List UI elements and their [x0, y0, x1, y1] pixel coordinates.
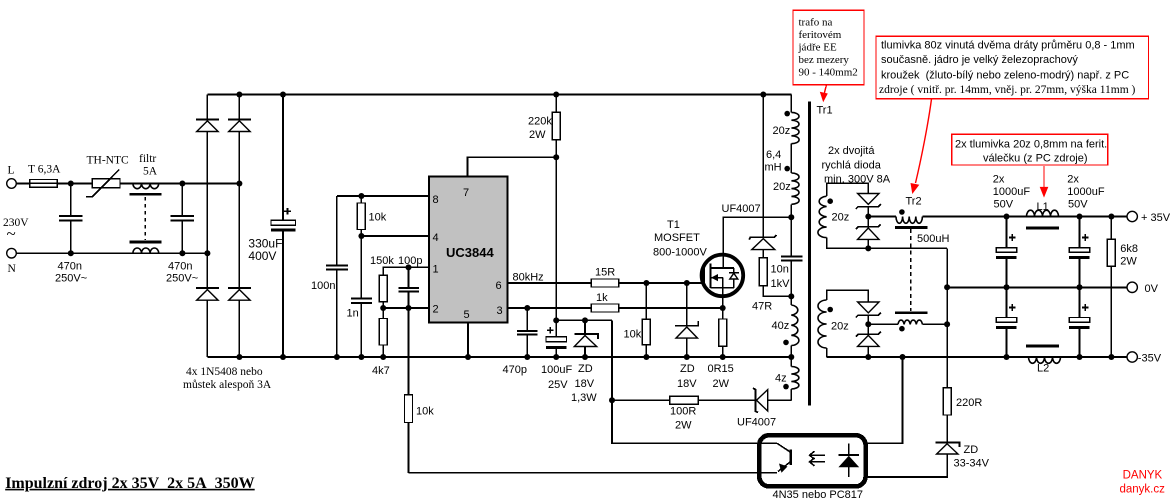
svg-text:18V: 18V	[677, 378, 697, 390]
wire gate net pin6 to MOSFET	[508, 282, 705, 284]
wire bottom rail primary ground	[207, 356, 791, 358]
junction pin2 line / 150k / 4k7	[380, 305, 386, 311]
capacitor 470n 250V~ #2	[166, 184, 198, 285]
junction -35V rail / C3	[1004, 354, 1010, 360]
svg-text:T1: T1	[667, 219, 680, 231]
svg-text:0V: 0V	[1145, 283, 1159, 295]
svg-text:+ 35V: + 35V	[1141, 212, 1170, 224]
terminal -35V	[1127, 352, 1162, 365]
junction bottom rail / 100uF	[553, 354, 559, 360]
wire optocoupler emitter line	[409, 472, 778, 474]
resistor R 10k (pin8-pin4)	[357, 196, 386, 236]
svg-text:mH: mH	[765, 162, 782, 174]
transformer Tr1 primary winding 20z lower	[765, 144, 800, 218]
wire pin 2 net	[383, 307, 429, 309]
terminal L	[7, 165, 17, 189]
svg-text:současně. jádro je velký žele: současně. jádro je velký železoprachový	[881, 54, 1078, 66]
svg-text:ZD: ZD	[680, 363, 695, 375]
wire Vcc node to ZD18V and 612 branch	[556, 319, 612, 321]
svg-text:zdroje ( vnitř. pr. 14mm, vněj: zdroje ( vnitř. pr. 14mm, vněj. pr. 27mm…	[879, 84, 1136, 96]
svg-text:100n: 100n	[311, 280, 335, 292]
label bridge 4x 1N5408	[183, 366, 272, 391]
svg-text:4z: 4z	[775, 373, 787, 385]
svg-text:15R: 15R	[595, 267, 615, 279]
junction bottom rail / 330uF	[280, 354, 286, 360]
junction aux line / 100R branch	[609, 397, 615, 403]
svg-text:Impulzní zdroj 2x 35V 2x 5A: Impulzní zdroj 2x 35V 2x 5A 350W	[5, 475, 255, 492]
svg-text:4x 1N5408 nebo: 4x 1N5408 nebo	[186, 366, 263, 378]
svg-text:Tr1: Tr1	[817, 105, 833, 117]
svg-text:1000uF: 1000uF	[1067, 186, 1105, 198]
junction L/470n#2	[179, 181, 185, 187]
svg-text:150k: 150k	[370, 255, 394, 267]
svg-text:2W: 2W	[713, 378, 730, 390]
svg-text:470n: 470n	[58, 261, 82, 273]
svg-text:1000uF: 1000uF	[993, 186, 1031, 198]
capacitor 330uF 400V bulk	[248, 95, 295, 358]
junction pin8 line / 10k	[358, 193, 364, 199]
svg-text:100R: 100R	[670, 406, 696, 418]
svg-text:0R15: 0R15	[708, 363, 734, 375]
junction L line / bridge right leg	[236, 181, 242, 187]
resistor R 150k	[370, 255, 394, 308]
svg-text:TH-NTC: TH-NTC	[87, 155, 129, 167]
svg-text:5: 5	[464, 309, 470, 321]
junction bottom rail / 0R15	[720, 354, 726, 360]
svg-text:4: 4	[433, 232, 439, 244]
diode UF4007 snubber	[749, 235, 776, 258]
svg-text:800-1000V: 800-1000V	[653, 247, 707, 259]
svg-text:8: 8	[433, 194, 439, 206]
svg-text:6: 6	[496, 280, 502, 292]
capacitor 470p	[503, 308, 538, 376]
wire snubber branch from top rail	[762, 95, 764, 237]
svg-text:DANYK: DANYK	[1123, 470, 1163, 482]
junction pin2 line / 100p / feedback branch	[406, 305, 412, 311]
wire pin 7 net to Vcc	[468, 157, 557, 176]
junction bottom rail / bridge right leg	[236, 354, 242, 360]
svg-text:filtr: filtr	[139, 153, 156, 165]
capacitor 100uF 25V	[541, 327, 572, 391]
svg-text:250V~: 250V~	[55, 273, 87, 285]
junction source / CS net / 0R15	[720, 305, 726, 311]
svg-text:kroužek (žluto-bílý nebo zele: kroužek (žluto-bílý nebo zeleno-modrý) n…	[881, 70, 1129, 82]
wire optocoupler LED anode to zener branch	[866, 454, 948, 477]
wire 0V center tap vertical	[946, 248, 948, 387]
svg-text:400V: 400V	[248, 249, 276, 263]
svg-text:L1: L1	[1037, 201, 1049, 213]
svg-text:80kHz: 80kHz	[513, 272, 544, 284]
svg-text:6k8: 6k8	[1120, 243, 1138, 255]
junction primary winding / drain / 10n	[788, 214, 794, 220]
junction +35V rail / C1	[1004, 214, 1010, 220]
svg-text:20z: 20z	[831, 321, 849, 333]
svg-text:10k: 10k	[416, 406, 434, 418]
junction pin7 / 220k / Vcc vertical	[553, 154, 559, 160]
wire bridge right leg	[238, 95, 240, 358]
svg-text:20z: 20z	[832, 212, 850, 224]
svg-text:20z: 20z	[773, 181, 791, 193]
junction 10n / 47R / 40z top	[788, 293, 794, 299]
junction bottom rail / 1n	[358, 354, 364, 360]
junction -35V rail / C4	[1077, 354, 1083, 360]
junction -35V rail / D8	[865, 354, 871, 360]
junction bottom rail / 4k7	[380, 354, 386, 360]
svg-text:rychlá dioda: rychlá dioda	[822, 160, 882, 172]
svg-text:1,3W: 1,3W	[571, 392, 597, 404]
transformer Tr1 secondary winding 20z lower	[818, 290, 868, 357]
optocoupler light arrows	[810, 451, 825, 466]
wire bridge left leg	[206, 95, 208, 358]
junction bottom rail / 10k pulldown	[643, 354, 649, 360]
junction -35V rail / 6k8	[1108, 354, 1114, 360]
resistor R 4k7	[372, 308, 390, 377]
svg-text:jádře EE: jádře EE	[798, 42, 837, 54]
junction 40z / 4z / bottom rail end	[788, 354, 794, 360]
junction top rail / 330uF	[280, 92, 286, 98]
wire 0V rail	[947, 286, 1127, 288]
optocoupler phototransistor	[777, 443, 791, 473]
junction Vcc node / 100uF	[553, 317, 559, 323]
terminal 0V	[1127, 282, 1159, 295]
annotation red box 2x tlumivka	[952, 134, 1108, 165]
wire drain from primary winding	[723, 217, 791, 268]
transformer Tr1 secondary winding 20z upper	[818, 183, 947, 248]
junction +35V rail / C2	[1077, 214, 1083, 220]
optocoupler LED	[838, 443, 859, 477]
junction pin1 line / 100p	[406, 264, 412, 270]
diode fast D8 (lower pair, freewheel)	[856, 315, 881, 357]
diode bridge D1 top-left 1N5408	[196, 119, 219, 131]
svg-text:2W: 2W	[529, 129, 546, 141]
terminal N	[7, 248, 17, 275]
diode fast D7 (lower pair, top)	[856, 302, 881, 318]
junction -35V rail / opto cathode wire	[900, 354, 906, 360]
svg-text:10k: 10k	[624, 329, 642, 341]
label 2x dvojita rychla dioda	[822, 145, 891, 186]
svg-text:40z: 40z	[772, 320, 790, 332]
svg-text:UC3844: UC3844	[446, 245, 494, 260]
diode bridge D4 bottom-right 1N5408	[228, 288, 251, 300]
capacitor 1000uF 50V #1	[993, 174, 1031, 288]
svg-text:ZD: ZD	[578, 363, 593, 375]
junction gate net / gate zener	[684, 280, 690, 286]
op-amp/PWM controller U1 UC3844	[429, 177, 508, 323]
svg-text:470p: 470p	[503, 364, 527, 376]
junction lower diode pair output	[865, 321, 871, 327]
svg-text:20z: 20z	[773, 125, 791, 137]
transformer Tr1 primary winding 20z upper	[773, 95, 800, 144]
svg-text:1n: 1n	[347, 308, 359, 320]
junction 20z upper return / D6	[865, 245, 871, 251]
resistor R 10k gate pulldown	[624, 283, 651, 357]
annotation red arrow to Tr2	[911, 99, 932, 194]
title Impulzni zdroj	[5, 475, 255, 492]
junction bottom rail / ZD18V	[582, 354, 588, 360]
svg-text:~: ~	[7, 224, 16, 243]
capacitor 1000uF 50V #3	[996, 287, 1017, 357]
resistor R 220k 2W	[528, 95, 560, 158]
svg-text:7: 7	[463, 187, 469, 199]
svg-text:-35V: -35V	[1138, 353, 1162, 365]
resistor R 47R	[752, 258, 791, 313]
optocoupler U2 4N35	[759, 435, 865, 500]
junction N/470n#2	[179, 250, 185, 256]
junction gate net / 10k pulldown	[643, 280, 649, 286]
junction N/470n#1	[68, 250, 74, 256]
svg-text:MOSFET: MOSFET	[654, 232, 700, 244]
svg-text:můstek alespoň 3A: můstek alespoň 3A	[183, 378, 272, 391]
svg-text:2x: 2x	[1067, 174, 1079, 186]
svg-text:2x: 2x	[993, 174, 1005, 186]
wire Vcc vertical down to 100uF	[555, 157, 557, 337]
inductor L1	[1026, 201, 1059, 228]
junction N line / bridge left leg	[204, 250, 210, 256]
diode bridge D3 bottom-left 1N5408	[196, 288, 219, 300]
resistor R 1k	[591, 292, 619, 312]
svg-text:250V~: 250V~	[166, 273, 198, 285]
annotation red box tlumivka 80z	[876, 36, 1149, 98]
annotation red arrow to Tr1	[820, 85, 828, 102]
svg-text:T 6,3A: T 6,3A	[28, 164, 61, 176]
wire source to CS net	[722, 288, 724, 308]
junction top rail / 220k	[553, 92, 559, 98]
wire branch x612 down to aux supply line	[612, 320, 777, 443]
svg-text:90 - 140mm2: 90 - 140mm2	[799, 67, 858, 79]
svg-text:470n: 470n	[168, 261, 192, 273]
zener diode ZD 18V 1,3W	[571, 320, 598, 404]
junction L/470n#1	[68, 181, 74, 187]
resistor R 15R gate	[591, 267, 619, 288]
junction Tr2 lower / center tap	[944, 321, 950, 327]
svg-text:4k7: 4k7	[372, 365, 390, 377]
wire top rail +310V	[207, 94, 791, 96]
svg-text:50V: 50V	[994, 199, 1014, 211]
terminal +35V	[1127, 211, 1170, 224]
junction pin 5 / bottom rail	[465, 354, 471, 360]
capacitor 10n 1kV	[771, 217, 803, 296]
transformer Tr1 demagnetizing winding 40z	[772, 296, 799, 357]
svg-text:UF4007: UF4007	[722, 203, 761, 215]
svg-text:2x dvojitá: 2x dvojitá	[828, 145, 875, 157]
inductor Tr2 upper 500uH	[868, 196, 1127, 246]
zener diode ZD 18V gate	[675, 283, 698, 390]
capacitor 1000uF 50V #4	[1069, 287, 1090, 357]
svg-text:18V: 18V	[575, 378, 595, 390]
wire feedback branch down through rail	[408, 308, 410, 395]
junction +35V rail / 6k8	[1108, 214, 1114, 220]
transistor Q1 T1 MOSFET 800-1000V	[653, 219, 743, 296]
label 230V mains	[3, 217, 29, 243]
wire -35V rail	[827, 356, 1128, 358]
thermistor TH-NTC	[86, 155, 129, 197]
svg-text:L2: L2	[1037, 363, 1049, 375]
resistor R 220R	[943, 388, 982, 443]
resistor R 0R15 2W	[708, 308, 734, 390]
junction 0V rail / C1	[1004, 284, 1010, 290]
resistor R 6k8 2W bleeder	[1107, 217, 1138, 358]
wire optocoupler LED cathode to -35V rail	[866, 357, 903, 443]
diode bridge D2 top-right 1N5408	[228, 119, 251, 131]
svg-text:10k: 10k	[369, 212, 387, 224]
junction pin4 line / 10k / 1n	[358, 233, 364, 239]
junction CS net / 470p	[524, 305, 530, 311]
svg-text:25V: 25V	[548, 379, 568, 391]
svg-text:Tr2: Tr2	[906, 196, 922, 208]
wire current sense net pin3 to source	[508, 307, 723, 309]
inductor filtr 5A common-mode choke	[129, 153, 161, 253]
inductor Tr2 lower	[868, 313, 947, 332]
svg-text:2x tlumivka 20z 0,8mm na ferit: 2x tlumivka 20z 0,8mm na ferit.	[955, 139, 1107, 151]
annotation red arrow to L1	[1040, 166, 1049, 198]
wire L line from terminal to bridge	[17, 183, 239, 185]
svg-text:5A: 5A	[143, 166, 158, 178]
svg-text:3: 3	[497, 305, 503, 317]
svg-text:6,4: 6,4	[766, 149, 781, 161]
svg-text:bez mezery: bez mezery	[799, 54, 850, 66]
svg-text:500uH: 500uH	[917, 233, 949, 245]
resistor R 10k (feedback to optocoupler)	[405, 395, 435, 473]
junction top rail / bridge right leg	[236, 92, 242, 98]
wire pin 8 net	[337, 195, 429, 197]
svg-text:trafo na: trafo na	[799, 17, 833, 29]
wire N line from terminal to bridge	[17, 252, 208, 254]
svg-text:1k: 1k	[596, 292, 608, 304]
annotation red box trafo	[793, 10, 864, 85]
svg-text:50V: 50V	[1068, 199, 1088, 211]
svg-text:33-34V: 33-34V	[954, 458, 990, 470]
junction 0V rail / center tap	[944, 284, 950, 290]
junction Vcc line / ZD18V	[582, 317, 588, 323]
svg-text:1kV: 1kV	[771, 278, 791, 290]
capacitor 1000uF 50V #2	[1067, 174, 1105, 288]
svg-text:10n: 10n	[771, 264, 789, 276]
fuse T 6,3A	[28, 164, 61, 188]
resistor R 100R 2W	[612, 396, 756, 431]
wire pin 1 net	[383, 267, 429, 275]
capacitor 100n	[311, 265, 348, 292]
svg-text:L: L	[8, 165, 15, 177]
coupling dashed line Tr2	[910, 229, 912, 311]
svg-text:1: 1	[433, 264, 439, 276]
wire pin 5 to ground rail	[467, 323, 469, 358]
svg-text:N: N	[8, 263, 17, 275]
junction top rail / snubber	[760, 92, 766, 98]
svg-text:UF4007: UF4007	[737, 417, 776, 429]
diode fast D6 (upper pair, freewheel)	[856, 207, 881, 249]
svg-text:220k: 220k	[528, 116, 552, 128]
zener diode ZD 33-34V	[935, 442, 989, 469]
svg-text:ZD: ZD	[964, 444, 979, 456]
diode fast D5 (upper pair, top)	[856, 194, 881, 210]
junction bottom rail / gate zener	[684, 354, 690, 360]
svg-text:47R: 47R	[752, 301, 772, 313]
svg-text:100uF: 100uF	[541, 364, 572, 376]
svg-text:2: 2	[433, 304, 439, 316]
diode UF4007 aux rectifier	[737, 388, 791, 428]
capacitor 470n 250V~ #1	[55, 184, 87, 285]
svg-text:220R: 220R	[956, 397, 982, 409]
svg-text:danyk.cz: danyk.cz	[1120, 484, 1166, 496]
junction bottom rail / 100n	[334, 354, 340, 360]
svg-text:2W: 2W	[1120, 256, 1137, 268]
svg-text:feritovém: feritovém	[799, 29, 842, 41]
wire 100n branch vertical	[336, 196, 338, 357]
transformer Tr1 core	[808, 102, 811, 406]
inductor L2	[1026, 346, 1061, 375]
svg-text:2W: 2W	[675, 420, 692, 432]
transformer Tr1 auxiliary winding 4z	[775, 357, 799, 400]
junction upper diode pair output	[865, 214, 871, 220]
svg-text:válečku (z PC zdroje): válečku (z PC zdroje)	[983, 153, 1088, 165]
svg-text:tlumivka 80z vinutá dvěma drát: tlumivka 80z vinutá dvěma dráty průměru …	[881, 40, 1135, 52]
wire pin 4 net	[361, 235, 429, 237]
capacitor 100p	[398, 255, 422, 308]
junction bottom rail / 470p	[524, 354, 530, 360]
junction 0V rail / C2	[1077, 284, 1083, 290]
svg-text:4N35 nebo PC817: 4N35 nebo PC817	[773, 489, 864, 500]
capacitor 1n	[347, 236, 373, 357]
